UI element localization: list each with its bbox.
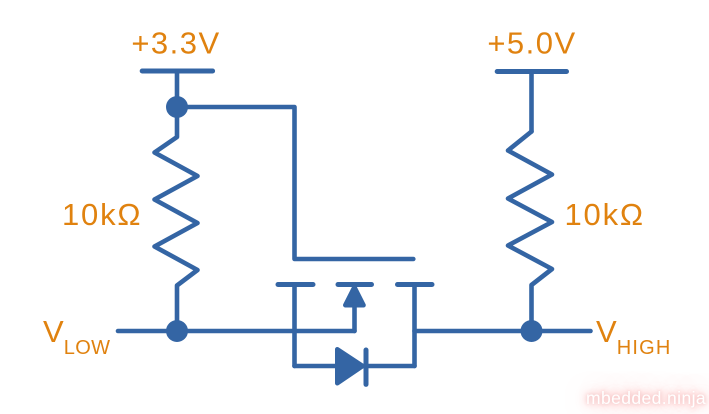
Q1 body arrow (points to channel) bbox=[345, 287, 363, 305]
transistor Q1 N-channel MOSFET bbox=[278, 285, 432, 385]
Q1 channel segment (body/middle) bbox=[338, 282, 372, 287]
Q1 drain tap wire bbox=[412, 285, 417, 367]
Q1 body connection wire to VLOW bbox=[352, 305, 357, 331]
power rail bar +5.0V bbox=[497, 69, 566, 74]
svg-text:VLOW: VLOW bbox=[43, 314, 110, 359]
wire: +3.3V rail down to node A bbox=[175, 71, 180, 107]
svg-text:mbedded.ninja: mbedded.ninja bbox=[586, 388, 706, 408]
svg-text:10kΩ: 10kΩ bbox=[565, 197, 645, 232]
junction node VLOW (R1 / source) bbox=[166, 320, 188, 342]
wire: VLOW net horizontal bbox=[118, 329, 355, 334]
svg-text:VHIGH: VHIGH bbox=[596, 314, 672, 359]
body diode D1 anode triangle bbox=[337, 349, 362, 383]
junction node A (+3.3V / R1 / gate) bbox=[166, 96, 188, 118]
body diode D1 cathode bar bbox=[364, 350, 369, 384]
svg-text:10kΩ: 10kΩ bbox=[62, 197, 142, 232]
svg-text:+3.3V: +3.3V bbox=[131, 26, 220, 61]
Q1 body diode loop wire bbox=[295, 364, 415, 369]
Q1 channel segment (drain side) bbox=[398, 282, 433, 287]
wire: VHIGH net horizontal bbox=[415, 329, 591, 334]
wire: +5.0V rail down to R2 bbox=[529, 72, 534, 132]
Q1 channel segment (source side) bbox=[278, 282, 313, 287]
wire: node A to gate of Q1 bbox=[177, 107, 413, 259]
resistor R2 10kΩ (pull-up to +5.0V) bbox=[508, 132, 552, 332]
Q1 source tap wire bbox=[292, 285, 297, 367]
svg-text:+5.0V: +5.0V bbox=[487, 26, 576, 61]
power rail bar +3.3V bbox=[142, 69, 212, 74]
junction node VHIGH (R2 / drain) bbox=[521, 320, 543, 342]
resistor R1 10kΩ (pull-up to +3.3V) bbox=[155, 107, 198, 331]
